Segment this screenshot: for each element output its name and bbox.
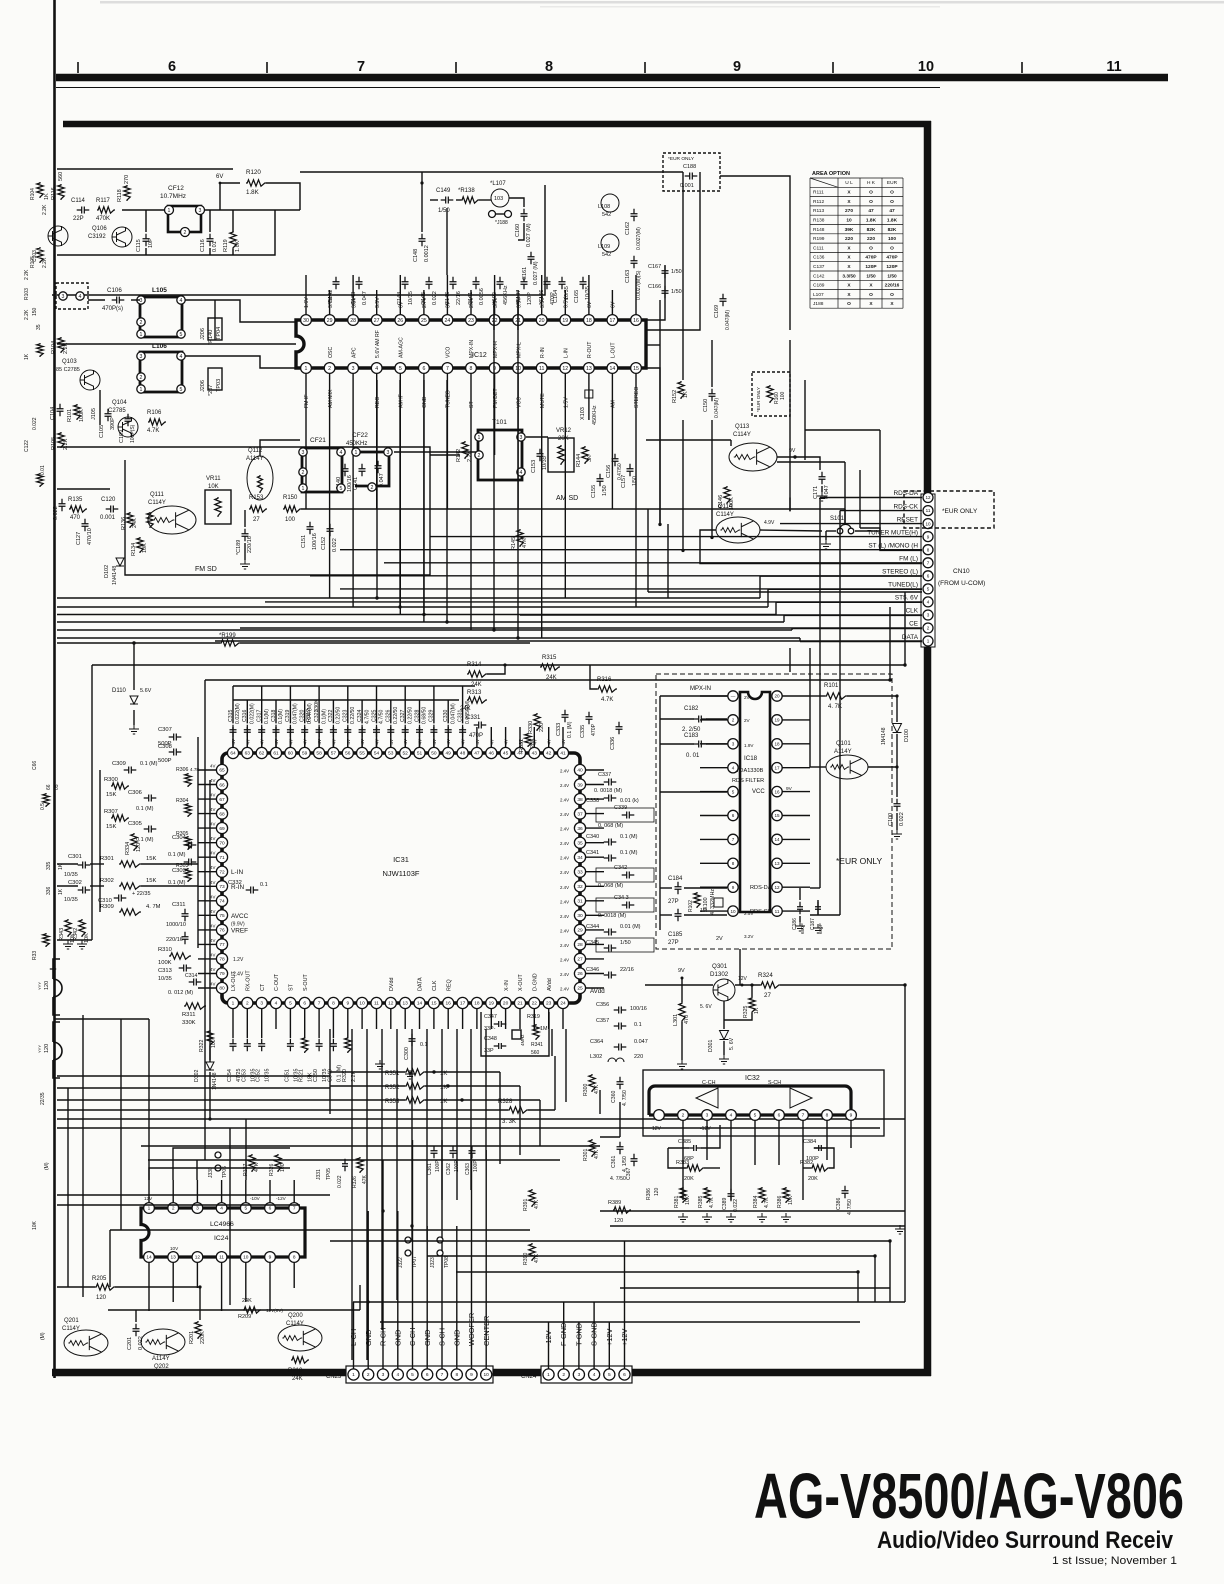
caps below IC31 bottom pins [230, 1039, 237, 1052]
svg-text:1.2V: 1.2V [233, 957, 244, 963]
svg-text:R210: R210 [288, 1368, 303, 1374]
svg-text:10.7MHz: 10.7MHz [160, 193, 186, 200]
resistor R310 100K [169, 953, 191, 959]
svg-text:0.022: 0.022 [899, 812, 905, 826]
svg-text:C185: C185 [668, 932, 683, 938]
svg-text:2: 2 [562, 1372, 565, 1378]
svg-text:100: 100 [780, 391, 786, 400]
svg-text:R301: R301 [583, 1148, 589, 1161]
svg-text:12V: 12V [144, 1196, 153, 1201]
svg-text:37: 37 [577, 811, 583, 817]
svg-text:6: 6 [422, 366, 425, 372]
svg-text:GND: GND [422, 396, 428, 408]
svg-text:9V: 9V [786, 786, 793, 792]
svg-text:0.0027(M)(S): 0.0027(M)(S) [636, 270, 642, 300]
svg-text:0.022(M): 0.022(M) [235, 703, 241, 724]
svg-text:C201: C201 [127, 1337, 133, 1350]
capacitor C346 22/16 [604, 972, 617, 979]
svg-text:220: 220 [867, 236, 875, 242]
svg-text:Q113: Q113 [735, 424, 750, 430]
svg-text:C106: C106 [107, 287, 122, 294]
IC U31 top pins 64-41 [227, 747, 238, 758]
bus lines left [57, 598, 800, 638]
svg-text:120: 120 [136, 843, 142, 852]
svg-text:0.22/50: 0.22/50 [336, 707, 342, 724]
svg-text:5. 6V: 5. 6V [729, 1037, 735, 1050]
svg-text:RDS-CK: RDS-CK [750, 909, 772, 915]
svg-text:12V: 12V [652, 1126, 662, 1132]
svg-text:5: 5 [754, 1113, 757, 1119]
svg-text:C127: C127 [76, 532, 82, 545]
svg-text:36: 36 [577, 826, 583, 832]
resistor R386 10K [783, 1187, 789, 1203]
svg-text:10: 10 [846, 218, 852, 224]
svg-text:60: 60 [288, 751, 294, 757]
capacitor C141b [359, 464, 366, 477]
svg-text:470P: 470P [469, 733, 483, 739]
svg-text:4.7/50: 4.7/50 [379, 709, 385, 724]
svg-text:R199: R199 [813, 236, 825, 242]
svg-text:5: 5 [732, 789, 735, 794]
coil L301 470 [679, 1002, 685, 1022]
capacitor C162 [631, 209, 638, 222]
svg-text:3.2V: 3.2V [744, 934, 754, 939]
svg-text:9V: 9V [678, 968, 685, 974]
svg-text:220: 220 [845, 236, 853, 242]
svg-text:C137: C137 [813, 264, 825, 270]
svg-text:70: 70 [219, 840, 225, 846]
svg-text:6V: 6V [611, 301, 617, 308]
svg-text:51: 51 [417, 751, 423, 757]
svg-text:O: O [869, 245, 873, 251]
svg-text:C142: C142 [813, 273, 825, 279]
svg-text:19: 19 [774, 718, 780, 723]
svg-text:66: 66 [219, 782, 225, 788]
svg-text:CN24: CN24 [521, 1374, 537, 1380]
svg-text:2: 2 [732, 718, 735, 723]
transistor Q1xx left [48, 226, 68, 246]
svg-text:C164: C164 [553, 290, 559, 303]
svg-text:35: 35 [36, 324, 42, 330]
svg-text:C386: C386 [836, 1197, 842, 1210]
svg-text:L107: L107 [813, 292, 824, 298]
svg-text:4V: 4V [210, 880, 215, 885]
svg-text:67: 67 [219, 797, 225, 803]
svg-text:C157: C157 [621, 475, 627, 488]
svg-text:L105: L105 [152, 287, 167, 294]
svg-text:2.4V: 2.4V [560, 856, 569, 861]
svg-text:O: O [847, 301, 851, 307]
svg-text:16: 16 [774, 789, 780, 794]
svg-text:1.5V: 1.5V [563, 397, 569, 408]
resistors R343 R342 10K [65, 919, 71, 937]
svg-text:8: 8 [470, 366, 473, 372]
wires IC18 right verticals [789, 648, 791, 672]
svg-text:11: 11 [775, 909, 780, 914]
svg-text:C188: C188 [683, 164, 696, 170]
svg-text:1.8K: 1.8K [866, 218, 877, 224]
svg-text:R390: R390 [523, 1252, 529, 1265]
svg-text:R304: R304 [176, 798, 189, 804]
svg-text:C105: C105 [99, 425, 105, 438]
svg-text:24: 24 [560, 1001, 566, 1007]
svg-text:C141: C141 [468, 292, 474, 305]
svg-text:39K: 39K [845, 227, 854, 233]
svg-text:12: 12 [562, 366, 568, 372]
svg-text:C162: C162 [625, 222, 631, 235]
svg-text:D-GND: D-GND [533, 973, 539, 991]
svg-text:AM MIX: AM MIX [328, 389, 334, 408]
svg-text:VREF: VREF [231, 927, 248, 934]
svg-text:5: 5 [244, 1206, 247, 1212]
svg-text:R391: R391 [523, 1198, 529, 1211]
svg-text:6: 6 [927, 574, 930, 579]
transistor Q301 D1302 [713, 979, 735, 1001]
svg-text:1/50: 1/50 [671, 269, 682, 275]
svg-text:0.1 (M): 0.1 (M) [620, 834, 638, 840]
svg-text:15K: 15K [146, 856, 156, 862]
svg-text:+ 22/35: + 22/35 [132, 891, 151, 897]
svg-text:1K: 1K [754, 1007, 760, 1014]
svg-text:21: 21 [517, 1001, 523, 1007]
svg-text:Q106: Q106 [92, 226, 107, 232]
svg-text:2: 2 [184, 230, 187, 236]
svg-text:11: 11 [539, 366, 544, 372]
svg-text:1K: 1K [44, 193, 50, 200]
svg-text:RDS-DA: RDS-DA [750, 885, 772, 891]
svg-text:2.2K: 2.2K [42, 204, 48, 215]
svg-text:-10V: -10V [250, 1196, 261, 1201]
resistor R209 24K [243, 1307, 261, 1313]
svg-text:2: 2 [478, 453, 481, 459]
svg-text:U L: U L [845, 180, 853, 186]
svg-text:0.68/50: 0.68/50 [422, 707, 428, 724]
svg-text:C152: C152 [321, 537, 327, 550]
svg-text:220K: 220K [200, 1331, 206, 1344]
wires R351-353 [330, 1071, 405, 1073]
svg-text:1: 1 [148, 1206, 151, 1212]
EUR only box at CN10 [904, 491, 994, 528]
svg-text:10K: 10K [685, 1195, 691, 1205]
wire mid block frame [57, 447, 430, 575]
svg-text:27P: 27P [668, 899, 679, 905]
wires top area [300, 171, 683, 173]
svg-text:0.1(M): 0.1(M) [278, 709, 284, 724]
svg-text:25: 25 [577, 986, 583, 992]
svg-text:R312: R312 [306, 709, 312, 722]
svg-text:28: 28 [577, 942, 583, 948]
svg-text:24K: 24K [132, 518, 138, 528]
svg-text:C114: C114 [71, 198, 86, 204]
op-amp C-CH [696, 1088, 718, 1108]
svg-text:2: 2 [140, 320, 143, 326]
resistor R331 20K [525, 733, 531, 747]
svg-text:22: 22 [532, 1001, 538, 1007]
svg-text:*EUR ONLY: *EUR ONLY [756, 387, 761, 412]
svg-text:5: 5 [411, 1372, 414, 1378]
svg-text:1.8K: 1.8K [246, 189, 260, 196]
resistor R327 47K [249, 1154, 255, 1172]
resistor R324 27 [760, 982, 780, 988]
svg-text:0.047: 0.047 [634, 1039, 648, 1045]
resistor R150 100 [283, 506, 301, 512]
svg-text:C331: C331 [466, 715, 481, 721]
capacitor C356 100/16 [614, 1007, 627, 1014]
svg-text:REG: REG [375, 397, 381, 408]
svg-text:470P: 470P [591, 723, 597, 736]
svg-text:8: 8 [927, 547, 930, 552]
svg-text:C346: C346 [586, 967, 599, 973]
svg-text:10K: 10K [142, 543, 148, 553]
left edge coil 1 [53, 959, 62, 1015]
svg-text:C66: C66 [32, 761, 38, 770]
long verticals from IC12 area down to buses [494, 300, 518, 330]
IC U18 body [740, 692, 770, 912]
svg-text:C114Y: C114Y [286, 1321, 304, 1327]
J105 C105 390P [99, 390, 101, 425]
capacitor C309 0.1(M) [124, 767, 137, 774]
svg-text:C146: C146 [445, 292, 451, 305]
svg-text:4MHz: 4MHz [520, 1035, 525, 1046]
node R153 wire right [646, 172, 700, 330]
VR11 10K [205, 490, 231, 524]
svg-text:(9.9V): (9.9V) [231, 921, 245, 927]
svg-text:C151: C151 [301, 535, 307, 548]
svg-text:27: 27 [577, 957, 583, 963]
resistor R353 1K [405, 1097, 425, 1103]
svg-text:C306: C306 [128, 790, 142, 796]
svg-text:*287: *287 [208, 385, 214, 396]
resistor R326 100 [275, 1154, 281, 1172]
svg-text:45: 45 [503, 751, 509, 757]
capacitor C104 [57, 404, 64, 417]
svg-text:ST5. 6V: ST5. 6V [895, 595, 919, 602]
svg-text:0.047(M): 0.047(M) [725, 310, 731, 330]
svg-text:C309: C309 [112, 761, 126, 767]
IC U24 top pins 1-7 [144, 1203, 155, 1214]
svg-text:C300: C300 [404, 1047, 410, 1060]
svg-text:R389: R389 [608, 1200, 621, 1206]
svg-text:R102: R102 [688, 900, 694, 912]
capacitor C314 0.012(M) [189, 979, 202, 986]
svg-text:10/35: 10/35 [158, 976, 172, 982]
svg-text:NJW1103F: NJW1103F [383, 869, 420, 878]
svg-text:3: 3 [732, 742, 735, 747]
svg-text:CE: CE [909, 621, 918, 628]
svg-text:R319: R319 [527, 1014, 540, 1020]
capacitor C312 220/16 [182, 932, 189, 945]
svg-text:20: 20 [503, 1001, 509, 1007]
svg-text:VCC: VCC [516, 397, 522, 408]
svg-text:23: 23 [468, 318, 474, 324]
svg-text:C301: C301 [68, 854, 82, 860]
wires below IC31 [551, 1029, 553, 1056]
svg-text:100: 100 [211, 1039, 217, 1048]
svg-text:2: 2 [140, 375, 143, 381]
capacitor C120 0.001 [106, 506, 119, 513]
svg-text:R-OUT: R-OUT [587, 341, 593, 358]
svg-text:R342: R342 [73, 928, 79, 941]
svg-text:2.4V: 2.4V [560, 957, 569, 962]
svg-text:20K: 20K [808, 1176, 818, 1182]
svg-text:6: 6 [623, 1372, 626, 1378]
svg-text:82K: 82K [888, 227, 897, 233]
capacitor C340 0.1 [604, 839, 617, 846]
svg-text:25: 25 [421, 318, 427, 324]
svg-text:2.2K: 2.2K [42, 257, 48, 268]
svg-text:R384: R384 [753, 1195, 759, 1208]
capacitor C344 0.01 [604, 929, 617, 936]
svg-text:18: 18 [774, 742, 780, 747]
svg-text:*R199: *R199 [219, 633, 236, 639]
svg-text:R105: R105 [51, 437, 57, 450]
svg-text:73: 73 [219, 884, 225, 890]
svg-text:3: 3 [260, 1001, 263, 1007]
svg-text:C311: C311 [172, 902, 185, 908]
svg-text:5: 5 [289, 1001, 292, 1007]
svg-text:2.4V: 2.4V [233, 971, 244, 977]
top-right resistors R313 R314 R315 [467, 671, 487, 677]
svg-text:64: 64 [230, 751, 236, 757]
svg-text:R381: R381 [674, 1195, 680, 1208]
svg-text:5: 5 [180, 332, 183, 338]
svg-text:14: 14 [417, 1001, 423, 1007]
svg-text:3: 3 [578, 1372, 581, 1378]
svg-text:R148: R148 [813, 227, 825, 233]
svg-text:1.9V: 1.9V [744, 743, 754, 748]
svg-text:120: 120 [96, 1295, 107, 1301]
svg-text:1: 1 [305, 366, 308, 372]
svg-text:C160: C160 [515, 224, 521, 237]
connector CN10 box [921, 494, 935, 647]
capacitor C189 220/16 [242, 529, 249, 542]
svg-text:C333: C333 [556, 723, 562, 736]
svg-text:1: 1 [352, 1372, 355, 1378]
svg-text:R307: R307 [104, 809, 118, 815]
svg-text:R113: R113 [813, 208, 824, 214]
svg-text:0.1 (M): 0.1 (M) [168, 852, 186, 858]
svg-text:7: 7 [293, 1206, 296, 1212]
svg-text:76: 76 [219, 928, 225, 934]
svg-text:R205: R205 [92, 1276, 107, 1282]
svg-text:3: 3 [352, 366, 355, 372]
svg-text:DATA: DATA [418, 977, 424, 991]
svg-text:C169: C169 [714, 305, 720, 318]
svg-text:0.027 (M): 0.027 (M) [533, 261, 539, 285]
svg-text:0.022: 0.022 [432, 291, 438, 305]
capacitor C140 100/16 [342, 464, 349, 477]
svg-text:O: O [890, 245, 894, 251]
svg-text:Q101: Q101 [836, 741, 851, 747]
svg-text:FM SD: FM SD [195, 566, 217, 573]
svg-text:L-OUT: L-OUT [611, 342, 617, 358]
connector CN23 pins [348, 1369, 359, 1380]
svg-text:2: 2 [927, 626, 930, 631]
D302 R322 diode column [207, 1030, 213, 1046]
svg-text:9: 9 [732, 885, 735, 890]
svg-text:TP08: TP08 [444, 1256, 450, 1268]
svg-text:1/50: 1/50 [671, 289, 682, 295]
svg-text:47K: 47K [362, 1174, 368, 1184]
svg-text:Q301: Q301 [712, 963, 728, 970]
ruler bar [56, 74, 1168, 82]
svg-text:335: 335 [46, 861, 52, 870]
svg-text:X103: X103 [580, 407, 586, 420]
capacitor C115 10P [143, 234, 150, 247]
svg-text:39: 39 [577, 782, 583, 788]
svg-text:4: 4 [340, 450, 343, 456]
svg-text:C335: C335 [580, 725, 586, 738]
svg-text:47K: 47K [254, 1162, 260, 1172]
svg-text:S-OUT: S-OUT [303, 974, 309, 991]
svg-text:80: 80 [219, 986, 225, 992]
svg-text:R33: R33 [32, 951, 38, 960]
svg-text:24: 24 [445, 318, 451, 324]
svg-text:*C136: *C136 [539, 290, 545, 305]
resistor R311 330K [184, 1003, 206, 1009]
svg-text:Q103: Q103 [62, 359, 77, 365]
svg-text:20: 20 [774, 694, 780, 699]
svg-text:D302: D302 [194, 1069, 200, 1082]
svg-text:15: 15 [431, 1001, 437, 1007]
svg-text:L-IN: L-IN [563, 348, 569, 358]
svg-text:5.6V AM RF: 5.6V AM RF [375, 330, 381, 358]
svg-text:C314: C314 [185, 973, 198, 979]
svg-text:*EUR ONLY: *EUR ONLY [836, 856, 882, 866]
wires IC24 top [149, 1168, 290, 1180]
svg-text:10P: 10P [148, 238, 154, 248]
thin line under ruler [56, 87, 940, 89]
svg-text:(FROM U-COM): (FROM U-COM) [938, 580, 985, 587]
IC U24 bottom pins 14-8 [144, 1252, 155, 1263]
svg-text:X-OUT: X-OUT [518, 974, 524, 991]
svg-text:C341: C341 [586, 850, 599, 856]
svg-text:10/35: 10/35 [585, 286, 591, 300]
svg-text:23: 23 [546, 1001, 552, 1007]
svg-text:12V: 12V [738, 976, 748, 982]
svg-text:4.7K: 4.7K [709, 1197, 715, 1208]
svg-text:0.001: 0.001 [680, 183, 694, 189]
svg-text:C344: C344 [586, 924, 599, 930]
svg-text:24K: 24K [546, 675, 557, 681]
svg-text:R300: R300 [104, 777, 118, 783]
resistor R102 1M [694, 892, 700, 908]
svg-text:0.22/50: 0.22/50 [407, 707, 413, 724]
svg-text:3: 3 [196, 1206, 199, 1212]
svg-text:C171: C171 [813, 486, 819, 499]
crystal X301 circuit [481, 1012, 549, 1056]
svg-text:4.7K: 4.7K [190, 767, 200, 772]
svg-text:0.01 (k): 0.01 (k) [620, 798, 639, 804]
left page border line [53, 0, 56, 1378]
svg-text:R152: R152 [672, 390, 678, 403]
resistor R135 470 [69, 506, 87, 512]
AREA OPTION table [810, 178, 903, 308]
svg-text:L109: L109 [598, 244, 610, 250]
resistor R307 15K [111, 815, 129, 821]
capacitor C335 470P [586, 712, 593, 725]
svg-text:10K: 10K [208, 484, 219, 490]
svg-text:ST: ST [469, 401, 475, 408]
svg-text:78: 78 [219, 957, 225, 963]
svg-text:C302: C302 [68, 880, 82, 886]
svg-text:MUTE: MUTE [540, 393, 546, 408]
svg-text:R341: R341 [531, 1042, 543, 1048]
svg-text:4V: 4V [210, 865, 215, 870]
resistor R330 220 [534, 713, 540, 731]
svg-text:22/16: 22/16 [620, 967, 634, 973]
svg-text:470P: 470P [865, 255, 877, 261]
